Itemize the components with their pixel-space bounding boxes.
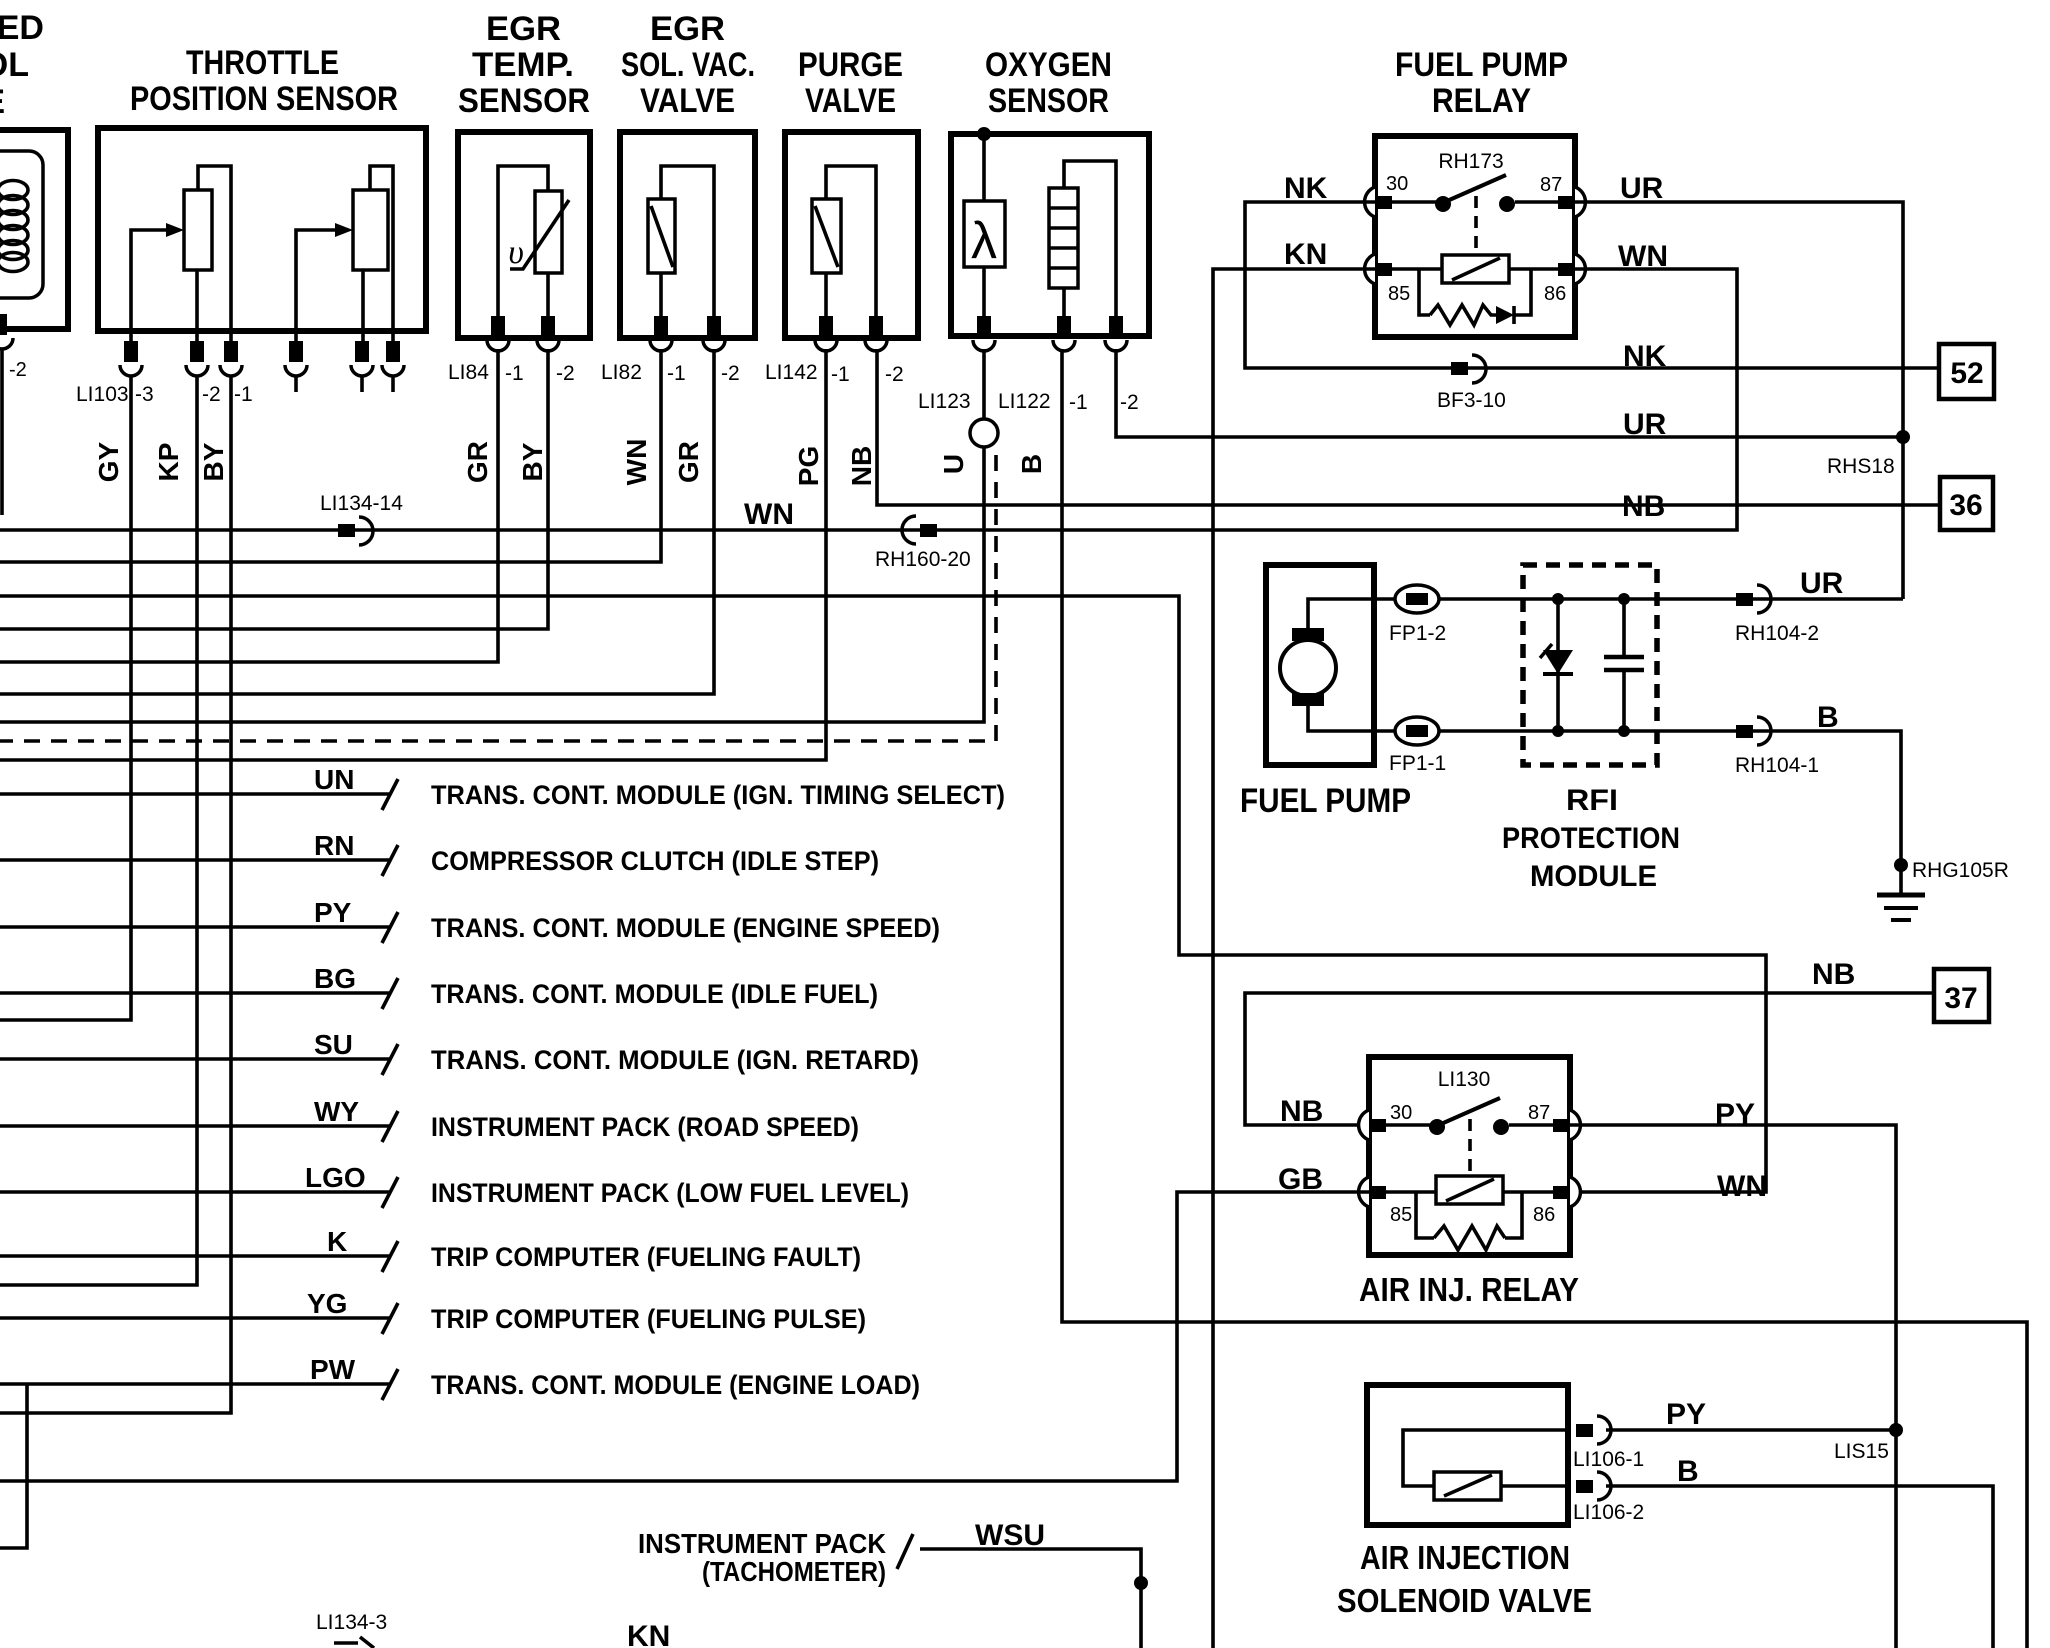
junction dot on WSU wire bbox=[1134, 1576, 1148, 1590]
svg-text:SENSOR: SENSOR bbox=[988, 82, 1109, 120]
svg-text:SENSOR: SENSOR bbox=[458, 82, 590, 120]
svg-text:KN: KN bbox=[627, 1620, 670, 1648]
svg-text:87: 87 bbox=[1528, 1102, 1550, 1124]
fuel pump relay pin 85 bbox=[1365, 254, 1411, 305]
coil inside left box bbox=[0, 151, 43, 298]
PY wire from solenoid valve to LIS15 junction bbox=[1606, 1398, 1896, 1463]
svg-text:-2: -2 bbox=[556, 362, 575, 385]
svg-text:YG: YG bbox=[307, 1288, 347, 1319]
air inj relay box bbox=[1359, 1057, 1579, 1308]
svg-text:BY: BY bbox=[517, 442, 548, 481]
air inj relay resistor loop bbox=[1416, 1192, 1522, 1250]
fuel pump motor bbox=[1280, 599, 1374, 731]
svg-text:PROTECTION: PROTECTION bbox=[1502, 822, 1680, 855]
screened cable dashed shield wire bbox=[0, 455, 996, 741]
svg-text:WY: WY bbox=[314, 1096, 359, 1127]
svg-text:-1: -1 bbox=[505, 362, 524, 385]
svg-text:-1: -1 bbox=[234, 383, 253, 406]
round in-line connector on lambda wire bbox=[970, 349, 998, 447]
branch wire on PW row bbox=[0, 1384, 27, 1548]
connector LI134-3 at bottom edge bbox=[316, 1611, 387, 1648]
air inj relay pin 30 bbox=[1359, 1102, 1413, 1140]
svg-text:37: 37 bbox=[1944, 982, 1977, 1015]
svg-text:85: 85 bbox=[1388, 283, 1410, 305]
connector RH104-2 bbox=[1735, 585, 1819, 645]
terminal 36 bbox=[1940, 477, 1993, 530]
GR wire from EGR sol vac valve pin -2 bbox=[0, 349, 714, 694]
svg-text:COMPRESSOR CLUTCH (IDLE STEP): COMPRESSOR CLUTCH (IDLE STEP) bbox=[431, 846, 879, 876]
svg-text:λ: λ bbox=[971, 212, 997, 270]
potentiometer 2 (TPS) bbox=[296, 166, 393, 341]
WSU wire from tachometer down off page bbox=[920, 1519, 1141, 1648]
connector FP1-2 bbox=[1389, 585, 1446, 645]
svg-text:-1: -1 bbox=[1069, 391, 1088, 414]
svg-text:PURGE: PURGE bbox=[798, 46, 903, 84]
svg-text:36: 36 bbox=[1949, 489, 1982, 522]
svg-text:WN: WN bbox=[1717, 1170, 1767, 1203]
pin -2 of left box bbox=[0, 314, 27, 381]
svg-text:LI134-14: LI134-14 bbox=[320, 492, 403, 515]
GR wire from EGR temp sensor pin -1 bbox=[0, 349, 498, 662]
svg-text:-2: -2 bbox=[9, 359, 27, 381]
fuel pump relay coil bbox=[1392, 255, 1558, 283]
svg-text:LI122: LI122 bbox=[998, 390, 1051, 413]
fuel pump relay pin 30 bbox=[1365, 173, 1409, 217]
svg-text:86: 86 bbox=[1544, 283, 1566, 305]
connector BF3-10 on NK wire bbox=[1437, 355, 1506, 412]
svg-text:UN: UN bbox=[314, 764, 354, 795]
fuel pump relay pin 86 bbox=[1544, 254, 1585, 305]
svg-text:NB: NB bbox=[1280, 1095, 1323, 1128]
fuel pump relay pin 87 bbox=[1540, 174, 1585, 217]
svg-text:PW: PW bbox=[310, 1354, 356, 1385]
connector LI106-2 bbox=[1573, 1472, 1644, 1524]
svg-text:KN: KN bbox=[1284, 238, 1327, 271]
svg-text:INSTRUMENT PACK (ROAD SPEED): INSTRUMENT PACK (ROAD SPEED) bbox=[431, 1112, 859, 1142]
lambda sensing element bbox=[964, 134, 1005, 316]
air inj relay pin 85 bbox=[1359, 1177, 1413, 1226]
air inj relay pin 87 bbox=[1528, 1102, 1580, 1140]
svg-text:BY: BY bbox=[198, 442, 229, 481]
NB wire from air inj relay pin 30 to terminal 37 bbox=[1245, 958, 1934, 1128]
air inj relay switch bbox=[1386, 1098, 1553, 1174]
NB wire from purge valve to terminal 36 bbox=[877, 349, 1938, 523]
svg-text:RHG105R: RHG105R bbox=[1912, 859, 2009, 882]
svg-text:EGR: EGR bbox=[486, 10, 561, 48]
svg-text:RFI: RFI bbox=[1566, 784, 1618, 817]
svg-text:RHS18: RHS18 bbox=[1827, 455, 1895, 478]
WY wire to instrument pack bbox=[0, 1096, 859, 1142]
svg-text:UR: UR bbox=[1620, 172, 1664, 205]
svg-text:TRANS. CONT. MODULE (ENGINE LO: TRANS. CONT. MODULE (ENGINE LOAD) bbox=[431, 1370, 920, 1400]
junction dot on oxygen sensor box top bbox=[977, 127, 991, 141]
air injection solenoid valve box bbox=[1337, 1385, 1592, 1619]
air injection solenoid bbox=[1403, 1430, 1568, 1500]
thermistor (EGR temp sensor) bbox=[498, 166, 569, 316]
svg-text:NB: NB bbox=[1622, 490, 1665, 523]
svg-text:-1: -1 bbox=[667, 362, 686, 385]
connector LI134-14 on WN row bbox=[320, 492, 403, 545]
LGO wire to instrument pack bbox=[0, 1162, 909, 1208]
svg-text:RELAY: RELAY bbox=[1432, 82, 1531, 120]
B wire fuel pump row to ground bbox=[1374, 701, 1901, 895]
UR wire from relay pin 87 down right side bbox=[1575, 172, 1903, 599]
EGR temp sensor connector LI84 pins bbox=[448, 316, 575, 385]
svg-text:SOLENOID VALVE: SOLENOID VALVE bbox=[1337, 1582, 1592, 1619]
svg-text:TRANS. CONT. MODULE (IDLE FUEL: TRANS. CONT. MODULE (IDLE FUEL) bbox=[431, 979, 878, 1009]
oxygen sensor heater bbox=[1049, 161, 1116, 316]
potentiometer 1 (TPS) bbox=[131, 166, 231, 341]
svg-text:LI142: LI142 bbox=[765, 361, 818, 384]
air inj relay coil bbox=[1386, 1176, 1553, 1204]
capacitor in RFI module bbox=[1604, 599, 1644, 731]
svg-text:B: B bbox=[1677, 1455, 1699, 1488]
svg-text:-2: -2 bbox=[202, 383, 221, 406]
svg-text:RH173: RH173 bbox=[1438, 150, 1503, 173]
svg-text:87: 87 bbox=[1540, 174, 1562, 196]
PY wire from air inj relay pin 87 down to bottom bbox=[1570, 1098, 1896, 1648]
connector RH104-1 bbox=[1735, 717, 1819, 777]
svg-text:NK: NK bbox=[1284, 172, 1328, 205]
svg-text:UR: UR bbox=[1623, 408, 1667, 441]
connector FP1-1 bbox=[1389, 717, 1446, 775]
svg-text:υ: υ bbox=[508, 234, 524, 271]
SU wire to trans cont module bbox=[0, 1029, 919, 1075]
svg-text:(TACHOMETER): (TACHOMETER) bbox=[702, 1556, 886, 1587]
YG wire to trip computer bbox=[0, 1288, 866, 1334]
svg-text:NB: NB bbox=[1812, 958, 1855, 991]
svg-text:U: U bbox=[938, 454, 969, 474]
junction dots in RFI module bbox=[1552, 593, 1630, 737]
svg-text:K: K bbox=[327, 1226, 347, 1257]
svg-text:SU: SU bbox=[314, 1029, 353, 1060]
svg-text:PY: PY bbox=[314, 897, 352, 928]
svg-text:LI123: LI123 bbox=[918, 390, 971, 413]
svg-text:52: 52 bbox=[1950, 357, 1983, 390]
svg-text:86: 86 bbox=[1533, 1204, 1555, 1226]
U wire from lambda connector to left bbox=[0, 447, 984, 722]
UR wire from oxygen sensor heater to junction bbox=[1116, 349, 1903, 478]
wire from left box pin -2 bbox=[0, 349, 4, 515]
svg-text:LI134-3: LI134-3 bbox=[316, 1611, 387, 1634]
throttle position sensor box bbox=[98, 44, 426, 331]
purge valve connector LI142 pins bbox=[765, 316, 904, 386]
svg-text:LI130: LI130 bbox=[1438, 1068, 1491, 1091]
svg-text:B: B bbox=[1016, 454, 1047, 474]
instrument pack tachometer label and slash bbox=[638, 1528, 913, 1587]
svg-text:FUEL PUMP: FUEL PUMP bbox=[1240, 782, 1411, 820]
connector RH160-20 on WN row bbox=[875, 516, 971, 571]
PY wire to trans cont module bbox=[0, 897, 940, 943]
connector LI106-1 bbox=[1573, 1416, 1644, 1471]
terminal 37 bbox=[1934, 969, 1989, 1022]
svg-text:-2: -2 bbox=[721, 362, 740, 385]
svg-text:TRIP COMPUTER (FUELING FAULT): TRIP COMPUTER (FUELING FAULT) bbox=[431, 1242, 861, 1272]
svg-text:NB: NB bbox=[846, 446, 877, 486]
UN wire to trans cont module bbox=[0, 764, 1005, 810]
svg-text:INSTRUMENT PACK (LOW FUEL LEVE: INSTRUMENT PACK (LOW FUEL LEVEL) bbox=[431, 1178, 909, 1208]
B wire from solenoid valve down off page bbox=[1606, 1455, 1993, 1648]
air inj relay pin 86 bbox=[1533, 1177, 1580, 1226]
svg-text:THROTTLE: THROTTLE bbox=[186, 44, 339, 82]
oxygen sensor box bbox=[951, 46, 1149, 336]
svg-text:B: B bbox=[1817, 701, 1839, 734]
svg-text:LI82: LI82 bbox=[601, 361, 642, 384]
svg-text:TRANS. CONT. MODULE (IGN. TIMI: TRANS. CONT. MODULE (IGN. TIMING SELECT) bbox=[431, 780, 1005, 810]
BY wire from EGR temp sensor pin -2 bbox=[0, 349, 548, 629]
PG wire from purge valve pin -1 bbox=[0, 349, 826, 760]
PW wire to trans cont module bbox=[0, 1354, 920, 1400]
oxygen sensor connector pins LI123 / LI122 bbox=[918, 316, 1139, 414]
svg-text:PY: PY bbox=[1666, 1398, 1706, 1431]
svg-text:RN: RN bbox=[314, 830, 354, 861]
BG wire to trans cont module bbox=[0, 963, 878, 1009]
EGR sol vac valve box bbox=[620, 10, 755, 338]
fuel pump relay box bbox=[1375, 46, 1575, 337]
fuel pump relay switch bbox=[1392, 175, 1558, 252]
svg-text:VE: VE bbox=[0, 83, 5, 121]
B wire from oxygen sensor down and right off page bbox=[1062, 349, 2027, 1648]
svg-text:SOL. VAC.: SOL. VAC. bbox=[621, 46, 755, 84]
svg-text:GR: GR bbox=[462, 441, 493, 483]
svg-text:LI106-2: LI106-2 bbox=[1573, 1501, 1644, 1524]
svg-text:AIR INJECTION: AIR INJECTION bbox=[1360, 1539, 1570, 1576]
svg-text:WN: WN bbox=[744, 498, 794, 531]
svg-text:LGO: LGO bbox=[305, 1162, 366, 1193]
svg-text:VALVE: VALVE bbox=[805, 82, 896, 120]
svg-text:UR: UR bbox=[1800, 567, 1844, 600]
svg-text:FP1-2: FP1-2 bbox=[1389, 622, 1446, 645]
svg-text:EGR: EGR bbox=[650, 10, 725, 48]
svg-text:PG: PG bbox=[793, 446, 824, 486]
svg-text:FUEL PUMP: FUEL PUMP bbox=[1395, 46, 1568, 84]
NK wire from relay pin 30 to terminal 52 bbox=[1245, 172, 1937, 373]
K wire to trip computer bbox=[0, 1226, 861, 1272]
WN wire from relay pin 86 to long row bbox=[0, 240, 1737, 531]
junction dot LIS15 bbox=[1889, 1423, 1903, 1437]
svg-text:GB: GB bbox=[1278, 1163, 1323, 1196]
KN wire from relay pin 85 down to bottom bbox=[1213, 238, 1375, 1648]
RN wire to compressor clutch bbox=[0, 830, 879, 876]
svg-text:NK: NK bbox=[1623, 340, 1667, 373]
solenoid (EGR sol vac valve) bbox=[648, 166, 714, 316]
KP wire from TPS pin -2 bbox=[0, 376, 197, 1285]
TPS connector LI103 pins bbox=[76, 341, 404, 406]
svg-text:-1: -1 bbox=[831, 363, 850, 386]
svg-text:WN: WN bbox=[621, 439, 652, 486]
terminal 52 bbox=[1939, 344, 1994, 399]
svg-text:RH104-2: RH104-2 bbox=[1735, 622, 1819, 645]
svg-text:TRANS. CONT. MODULE (ENGINE SP: TRANS. CONT. MODULE (ENGINE SPEED) bbox=[431, 913, 940, 943]
svg-text:MODULE: MODULE bbox=[1530, 860, 1657, 893]
svg-text:LI103: LI103 bbox=[76, 383, 129, 406]
GB wire from air inj relay pin 85 to left bbox=[0, 1163, 1369, 1481]
svg-text:30: 30 bbox=[1386, 173, 1408, 195]
ground RHG105R bbox=[1877, 858, 2009, 920]
svg-text:OXYGEN: OXYGEN bbox=[985, 46, 1112, 84]
idle speed control valve box (cut off at left edge) bbox=[0, 9, 68, 329]
purge valve box bbox=[785, 46, 918, 338]
svg-text:POSITION SENSOR: POSITION SENSOR bbox=[130, 80, 398, 118]
svg-text:INSTRUMENT PACK: INSTRUMENT PACK bbox=[638, 1528, 886, 1559]
svg-text:LI106-1: LI106-1 bbox=[1573, 1448, 1644, 1471]
svg-text:BG: BG bbox=[314, 963, 356, 994]
svg-text:BF3-10: BF3-10 bbox=[1437, 389, 1506, 412]
svg-text:WN: WN bbox=[1618, 240, 1668, 273]
svg-text:30: 30 bbox=[1390, 1102, 1412, 1124]
WN wire from air inj relay pin 86 bbox=[0, 596, 1767, 1203]
svg-text:GY: GY bbox=[93, 441, 124, 482]
fuel pump box bbox=[1240, 565, 1411, 820]
junction dot RHS18 bbox=[1896, 430, 1910, 444]
svg-text:RH160-20: RH160-20 bbox=[875, 548, 971, 571]
svg-text:GR: GR bbox=[673, 441, 704, 483]
svg-text:LIS15: LIS15 bbox=[1834, 1440, 1889, 1463]
svg-text:KP: KP bbox=[153, 443, 184, 482]
svg-text:-3: -3 bbox=[135, 383, 154, 406]
UR wire fuel pump row bbox=[1374, 567, 1903, 600]
svg-text:EED: EED bbox=[0, 9, 44, 47]
svg-text:FP1-1: FP1-1 bbox=[1389, 752, 1446, 775]
svg-text:ROL: ROL bbox=[0, 46, 29, 84]
svg-text:-2: -2 bbox=[885, 363, 904, 386]
svg-text:AIR INJ. RELAY: AIR INJ. RELAY bbox=[1359, 1271, 1579, 1308]
svg-text:LI84: LI84 bbox=[448, 361, 489, 384]
svg-text:TEMP.: TEMP. bbox=[472, 46, 574, 84]
EGR sol vac valve connector LI82 pins bbox=[601, 316, 740, 385]
svg-text:RH104-1: RH104-1 bbox=[1735, 754, 1819, 777]
svg-text:85: 85 bbox=[1390, 1204, 1412, 1226]
svg-text:-2: -2 bbox=[1120, 391, 1139, 414]
GY wire from TPS pin -3 bbox=[0, 376, 131, 1020]
BY wire from TPS pin -1 bbox=[0, 376, 231, 1413]
svg-text:PY: PY bbox=[1715, 1098, 1755, 1131]
svg-text:TRANS. CONT. MODULE (IGN. RETA: TRANS. CONT. MODULE (IGN. RETARD) bbox=[431, 1045, 919, 1075]
svg-text:VALVE: VALVE bbox=[640, 82, 735, 120]
EGR temp sensor box bbox=[458, 10, 590, 338]
RFI protection module dashed box bbox=[1502, 565, 1680, 893]
svg-text:WSU: WSU bbox=[975, 1519, 1045, 1552]
svg-text:TRIP COMPUTER (FUELING PULSE): TRIP COMPUTER (FUELING PULSE) bbox=[431, 1304, 866, 1334]
fuel pump relay resistor and diode loop bbox=[1419, 269, 1531, 325]
WN wire from EGR sol vac valve pin -1 bbox=[0, 349, 661, 562]
zener diode in RFI module bbox=[1540, 599, 1573, 731]
solenoid (purge valve) bbox=[812, 166, 876, 316]
